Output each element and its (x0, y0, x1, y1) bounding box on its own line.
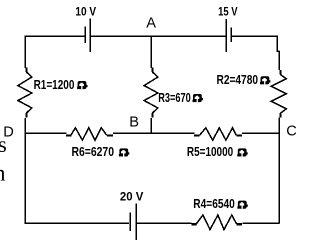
svg-text:n: n (0, 161, 6, 186)
svg-text:R3=670: R3=670 (158, 91, 191, 105)
svg-text:20 V: 20 V (120, 192, 144, 204)
svg-text:R4=6540: R4=6540 (193, 197, 235, 211)
svg-text:R1=1200: R1=1200 (34, 78, 75, 92)
svg-text:A: A (146, 16, 156, 32)
svg-text:R5=10000: R5=10000 (187, 145, 233, 159)
svg-text:C: C (286, 124, 297, 140)
svg-text:R6=6270: R6=6270 (72, 145, 115, 159)
svg-text:10 V: 10 V (75, 6, 96, 18)
svg-text:15 V: 15 V (218, 6, 238, 18)
svg-text:s: s (0, 132, 7, 157)
svg-text:B: B (129, 115, 139, 131)
svg-text:R2=4780: R2=4780 (217, 73, 259, 87)
